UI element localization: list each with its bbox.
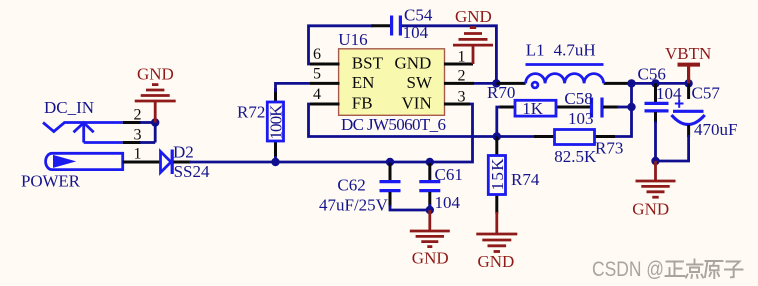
svg-text:BST: BST (352, 54, 384, 73)
wire FB run (309, 104, 537, 137)
svg-text:R73: R73 (595, 139, 623, 158)
pin stub U16 pin6 (310, 63, 340, 66)
svg-text:DC_IN: DC_IN (44, 98, 94, 117)
wire BST bootstrap right (402, 26, 497, 84)
pin stub diode cathode (174, 161, 192, 164)
svg-text:104: 104 (656, 84, 682, 103)
junction out col1 (627, 79, 635, 87)
watermark CSDN (592, 258, 743, 281)
junction C58 right (627, 103, 635, 111)
resistor R73 (534, 130, 615, 145)
wire pin2-pin3 tie (154, 123, 157, 143)
resistor R72 (267, 88, 286, 157)
pin stub U16 pin1 (444, 63, 473, 66)
pin stub U16 pin2 (444, 82, 474, 85)
resistor R74 (488, 137, 507, 214)
svg-text:EN: EN (352, 73, 375, 92)
svg-text:470uF: 470uF (694, 120, 737, 139)
svg-text:R74: R74 (511, 170, 540, 189)
svg-text:SW: SW (407, 73, 433, 92)
svg-text:6: 6 (313, 46, 321, 63)
capacitor C54 (372, 16, 401, 36)
capacitor C56 (645, 83, 669, 123)
junction rail-R72 (271, 158, 279, 166)
wire C57 bottom (656, 135, 689, 161)
svg-text:C61: C61 (435, 165, 463, 184)
svg-text:FB: FB (352, 94, 373, 113)
wire C62 bottom (390, 205, 430, 210)
junction FB node (493, 132, 501, 140)
wire SW to L1 (474, 82, 496, 85)
capacitor C57 (672, 83, 705, 137)
svg-text:103: 103 (568, 109, 594, 128)
svg-text:5: 5 (313, 65, 321, 82)
svg-text:GND: GND (137, 65, 174, 84)
svg-text:GND: GND (478, 252, 515, 271)
wire C56 bottom (654, 121, 657, 161)
power port VBTN (665, 44, 711, 83)
svg-text:4.7uH: 4.7uH (554, 40, 596, 59)
svg-text:CSDN @: CSDN @ (592, 258, 664, 281)
svg-text:4: 4 (313, 86, 321, 103)
junction C62-C61 bottom (426, 206, 434, 214)
junction jack GND node (151, 118, 159, 126)
wire R72 to rail (274, 156, 277, 162)
capacitor C62 (380, 163, 401, 207)
pin stub U16 pin5 (310, 82, 340, 85)
svg-text:C62: C62 (337, 176, 365, 195)
wire EN to R72 (276, 83, 311, 92)
svg-text:U16: U16 (338, 30, 367, 49)
junction out C57/VBTN (684, 79, 692, 87)
connector POWER DC jack (43, 123, 123, 170)
svg-text:15K: 15K (488, 158, 507, 191)
pin stub jack pin3 (123, 141, 141, 144)
junction rail-C62 (386, 158, 394, 166)
svg-text:SS24: SS24 (174, 162, 210, 181)
svg-text:47uF/25V: 47uF/25V (319, 196, 389, 215)
ground GND (jack) (135, 65, 176, 123)
wire feedback column (613, 83, 632, 136)
svg-text:2: 2 (134, 107, 142, 124)
svg-text:104: 104 (435, 193, 461, 212)
ground GND (C56/C57) (632, 161, 675, 219)
svg-text:GND: GND (412, 248, 449, 267)
svg-text:L1: L1 (526, 40, 545, 59)
svg-text:GND: GND (455, 7, 492, 26)
junction out C56 (651, 79, 659, 87)
pin stub jack pin1 (123, 161, 161, 164)
svg-text:DC JW5060T_6: DC JW5060T_6 (341, 115, 446, 134)
svg-text:100K: 100K (267, 104, 286, 140)
svg-text:VBTN: VBTN (665, 44, 711, 63)
svg-text:D2: D2 (173, 143, 194, 162)
pin stub U16 pin3 (444, 103, 470, 106)
svg-text:3: 3 (134, 127, 142, 144)
wire C61 bottom (428, 204, 431, 210)
svg-text:GND: GND (632, 200, 669, 219)
svg-text:C58: C58 (564, 89, 592, 108)
ground GND (U16 pin1) (453, 7, 493, 64)
wire BST bootstrap left (309, 26, 374, 64)
junction out gnd node (651, 157, 659, 165)
svg-text:VIN: VIN (402, 94, 432, 113)
pin stub U16 pin4 (310, 103, 340, 106)
svg-text:R72: R72 (237, 103, 265, 122)
svg-text:C54: C54 (404, 6, 433, 25)
capacitor C58 (574, 98, 632, 118)
wire output top rail (632, 82, 689, 85)
ground GND (C61/C62) (410, 210, 450, 267)
svg-text:GND: GND (395, 54, 432, 73)
svg-text:C56: C56 (638, 64, 666, 83)
resistor R70 1K (499, 99, 576, 118)
inductor L1 (496, 65, 631, 88)
wire main input rail (189, 104, 473, 162)
svg-text:1: 1 (134, 146, 142, 163)
svg-text:1K: 1K (522, 99, 544, 118)
capacitor C61 (419, 163, 440, 206)
svg-text:C57: C57 (692, 84, 721, 103)
IC U16 DC JW5060T (339, 49, 445, 116)
diode D2 (161, 150, 173, 175)
junction SW node (492, 79, 500, 87)
svg-text:POWER: POWER (21, 172, 81, 191)
svg-text:R70: R70 (487, 83, 515, 102)
wire 1K to FB node (497, 107, 500, 137)
ground GND (R74) (476, 212, 517, 271)
svg-text:82.5K: 82.5K (554, 147, 597, 166)
junction rail-C61 (426, 158, 434, 166)
pin stub jack pin2 (123, 121, 141, 124)
